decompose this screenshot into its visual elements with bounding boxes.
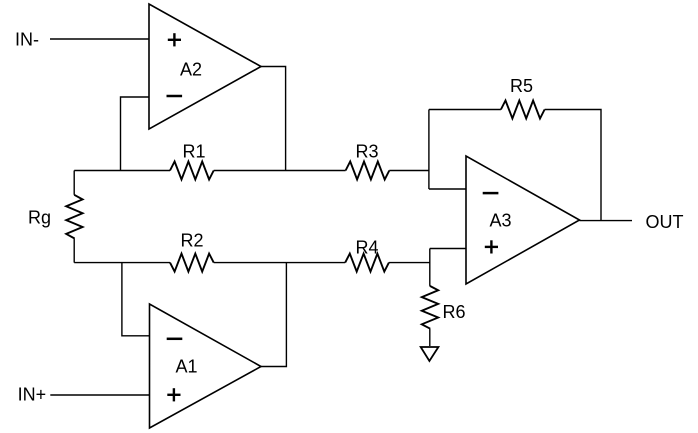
- op-amp A2 plus pin: [168, 33, 181, 46]
- svg-text:R4: R4: [356, 238, 379, 258]
- resistor R4: [345, 254, 389, 272]
- ground: [421, 347, 439, 361]
- op-amp A1 minus pin: [167, 338, 183, 341]
- wire top rail right segment: [389, 170, 429, 172]
- op-amp A3: [466, 156, 580, 284]
- op-amp A2 minus pin: [167, 95, 183, 98]
- resistor R5: [501, 101, 545, 119]
- resistor R2: [170, 254, 214, 272]
- svg-text:R2: R2: [181, 231, 204, 251]
- wire R5 left lead: [429, 109, 501, 111]
- op-amp A3 plus pin: [485, 240, 498, 253]
- svg-text:A1: A1: [176, 357, 198, 377]
- svg-text:R1: R1: [183, 142, 206, 162]
- svg-text:IN+: IN+: [18, 385, 47, 405]
- svg-text:OUT: OUT: [646, 212, 684, 232]
- svg-text:A3: A3: [490, 211, 512, 231]
- wire A3 plus input: [430, 248, 466, 250]
- wire A1 output to bottom rail: [261, 263, 286, 367]
- wire top rail left segment: [74, 170, 170, 172]
- wire Rg bottom lead: [73, 239, 75, 263]
- wire bottom rail middle segment: [214, 262, 346, 264]
- op-amp A1: [150, 304, 262, 428]
- wire IN+ lead: [50, 394, 149, 396]
- svg-text:Rg: Rg: [28, 208, 51, 228]
- svg-text:R6: R6: [443, 302, 466, 322]
- wire A2 output to top rail: [261, 67, 286, 171]
- resistor R1: [170, 162, 214, 180]
- wire R3/R5 junction vertical: [428, 110, 430, 190]
- wire OUT lead: [580, 220, 633, 222]
- resistor Rg: [66, 171, 82, 263]
- resistor R3: [346, 162, 390, 180]
- svg-text:A2: A2: [180, 60, 202, 80]
- wire R5 right lead and down to output: [545, 110, 601, 221]
- wire A1 feedback to minus input: [122, 263, 150, 336]
- wire A2 feedback to minus input: [121, 97, 150, 171]
- wire R6 bottom lead: [429, 329, 431, 346]
- op-amp A1 plus pin: [167, 388, 180, 401]
- svg-text:R3: R3: [356, 142, 379, 162]
- op-amp A3 minus pin: [483, 192, 499, 195]
- wire top rail middle segment: [214, 170, 346, 172]
- wire IN- lead: [50, 38, 149, 40]
- wire Rg top lead: [73, 171, 75, 195]
- resistor R6: [422, 286, 438, 329]
- op-amp A2: [149, 4, 261, 129]
- svg-text:R5: R5: [510, 76, 533, 96]
- wire R4 junction vertical to plus input: [429, 249, 431, 286]
- wire bottom rail right segment: [389, 262, 430, 264]
- wire A3 minus input: [429, 188, 466, 190]
- svg-text:IN-: IN-: [15, 30, 39, 50]
- wire bottom rail left segment: [74, 262, 170, 264]
